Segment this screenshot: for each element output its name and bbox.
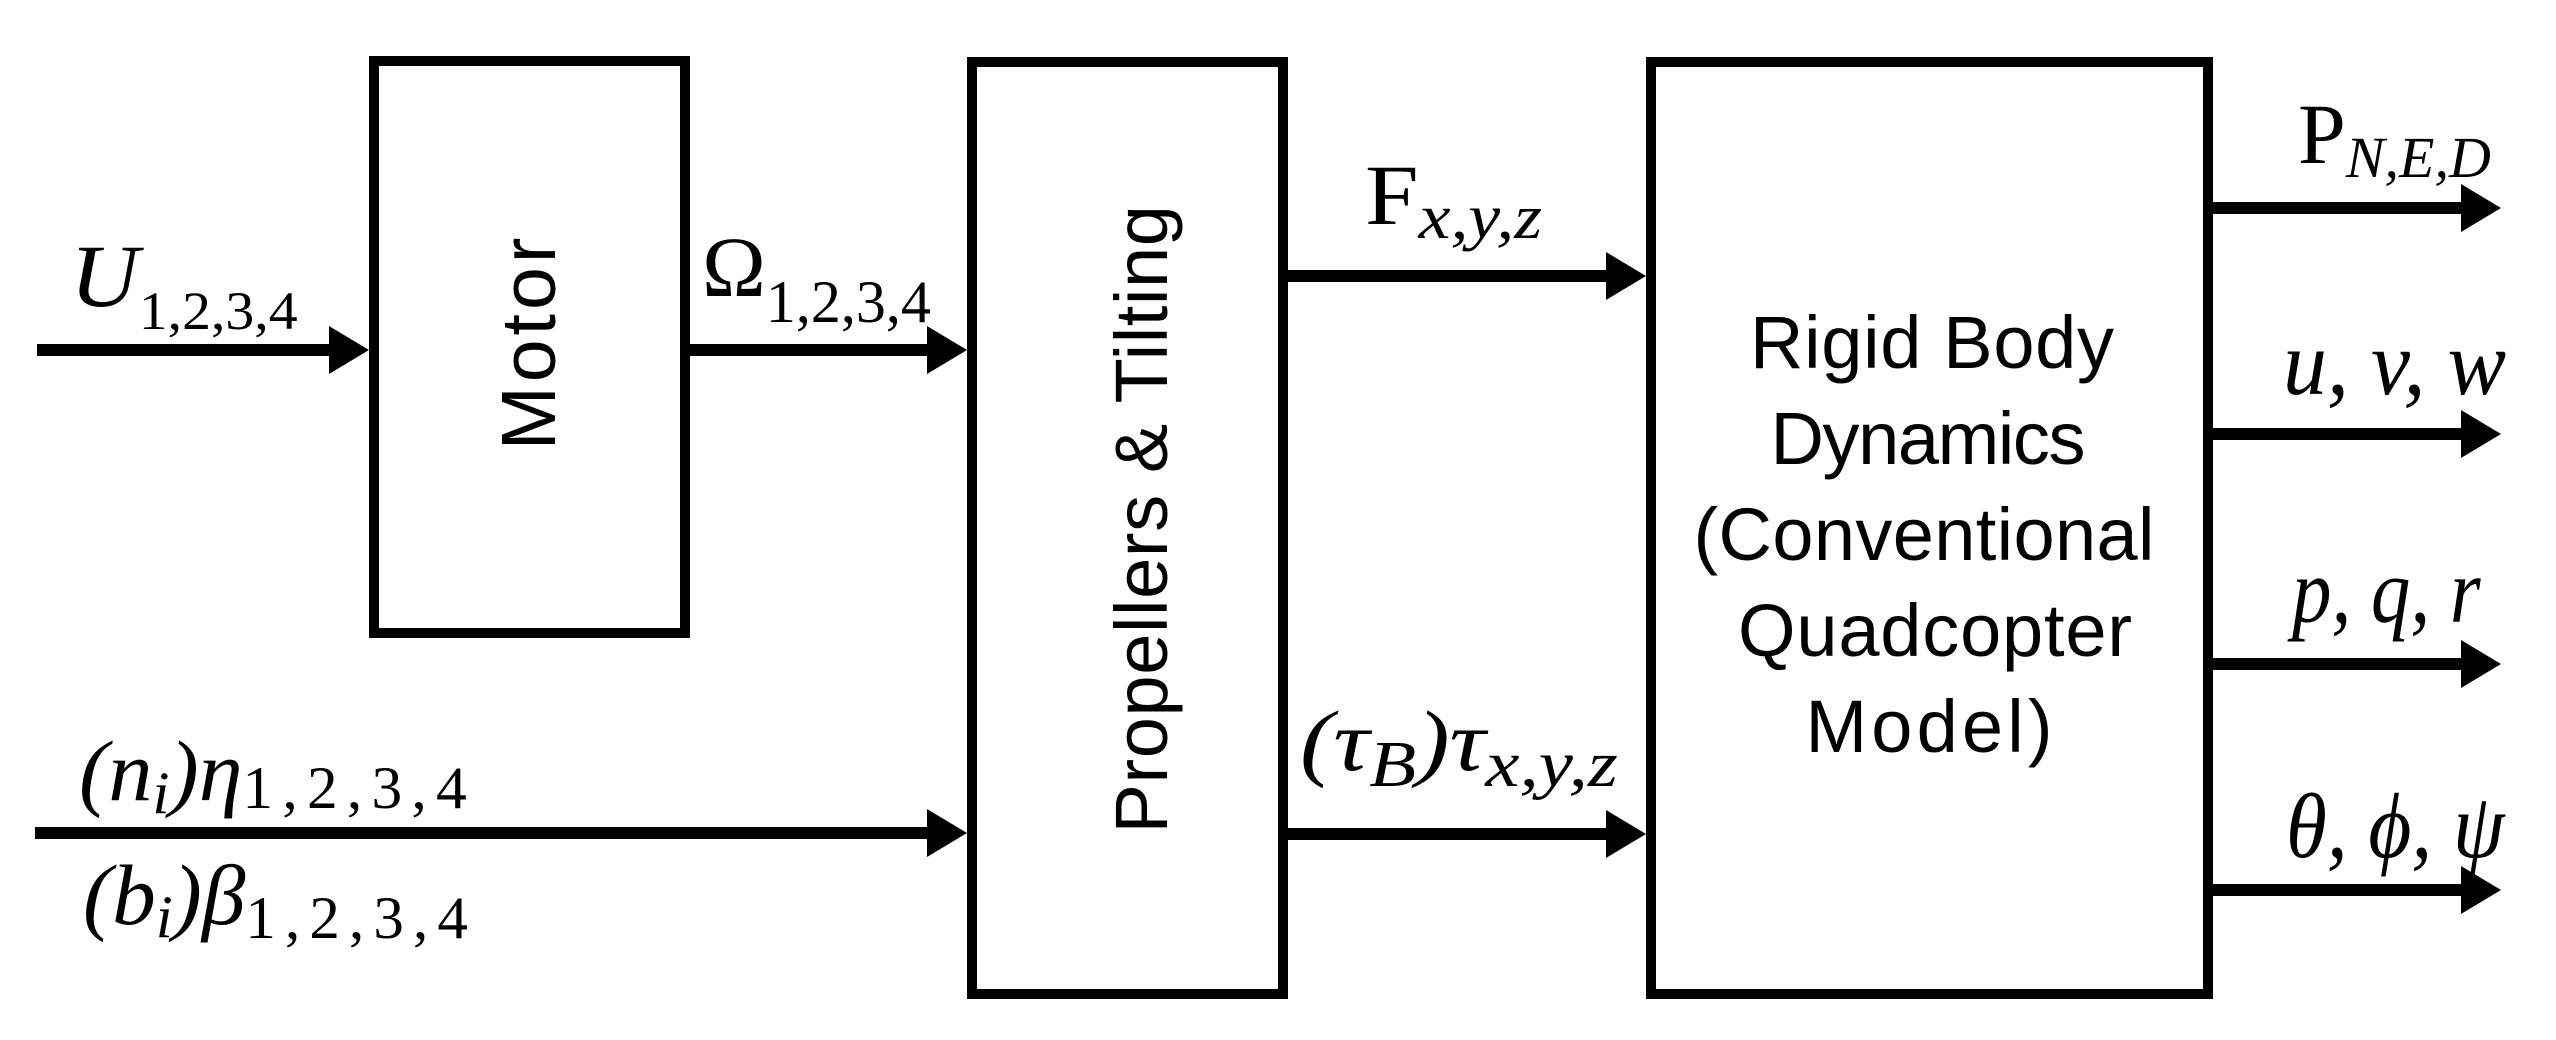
wire output angles bbox=[2213, 884, 2463, 896]
wire Omega Motor to Propellers bbox=[690, 344, 929, 356]
wire output uvw bbox=[2213, 428, 2463, 440]
arrowhead output uvw bbox=[2461, 410, 2501, 458]
wire U input bbox=[37, 344, 331, 356]
svg-text:Propellers & Tilting: Propellers & Tilting bbox=[1100, 205, 1183, 834]
svg-text:u, v, w: u, v, w bbox=[2283, 313, 2506, 414]
svg-text:θ, ϕ, ψ: θ, ϕ, ψ bbox=[2286, 775, 2506, 877]
wire output pqr bbox=[2213, 658, 2463, 670]
label P_NED bbox=[2298, 86, 2491, 190]
label Rigid Body Dynamics (Conventional Quadcopter Model) bbox=[1694, 301, 2155, 768]
block Rigid Body Dynamics bbox=[1651, 62, 2208, 994]
label F_xyz bbox=[1365, 148, 1542, 252]
arrowhead tau bbox=[1606, 810, 1646, 858]
label n_i eta_1234 bbox=[79, 723, 476, 827]
arrowhead output pqr bbox=[2461, 640, 2501, 688]
wire output P bbox=[2213, 202, 2463, 214]
arrowhead Omega bbox=[927, 326, 967, 374]
label theta phi psi bbox=[2286, 775, 2506, 877]
block Propellers & Tilting bbox=[972, 62, 1283, 994]
label u v w bbox=[2283, 313, 2506, 414]
label b_i beta_1234 bbox=[83, 848, 477, 952]
arrowhead U input bbox=[329, 326, 369, 374]
arrowhead output angles bbox=[2461, 866, 2501, 914]
svg-text:Motor: Motor bbox=[486, 234, 572, 451]
svg-text:(Conventional: (Conventional bbox=[1694, 493, 2155, 576]
label p q r bbox=[2286, 540, 2481, 642]
label tauB tau_xyz bbox=[1300, 694, 1618, 800]
svg-text:Rigid Body: Rigid Body bbox=[1750, 301, 2114, 384]
label U_1234 bbox=[70, 227, 298, 342]
wire F Propellers to RigidBody bbox=[1288, 270, 1608, 282]
svg-text:Model): Model) bbox=[1806, 685, 2053, 768]
svg-text:Quadcopter: Quadcopter bbox=[1738, 589, 2132, 672]
svg-text:p, q, r: p, q, r bbox=[2286, 540, 2481, 642]
block Motor bbox=[374, 61, 685, 633]
arrowhead output P bbox=[2461, 184, 2501, 232]
wire tau Propellers to RigidBody bbox=[1288, 828, 1608, 840]
svg-text:Dynamics: Dynamics bbox=[1771, 397, 2086, 480]
arrowhead tilt input bbox=[927, 809, 967, 857]
arrowhead F bbox=[1606, 252, 1646, 300]
wire tilt input bbox=[35, 827, 929, 839]
label Omega_1234 bbox=[702, 219, 931, 335]
